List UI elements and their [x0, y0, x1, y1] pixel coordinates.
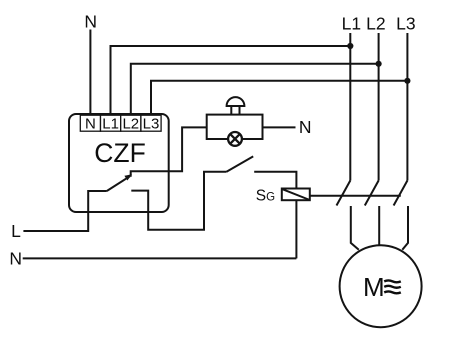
svg-text:N: N [84, 12, 97, 32]
svg-text:L2: L2 [122, 116, 139, 133]
svg-text:M: M [363, 272, 385, 302]
svg-text:N: N [9, 248, 22, 268]
svg-text:L3: L3 [396, 14, 415, 34]
svg-text:N: N [85, 116, 96, 133]
svg-text:L3: L3 [143, 116, 160, 133]
svg-text:L1: L1 [102, 116, 119, 133]
svg-text:CZF: CZF [94, 138, 146, 168]
svg-text:L1: L1 [342, 14, 361, 34]
svg-text:N: N [299, 117, 312, 137]
svg-text:L2: L2 [366, 14, 385, 34]
svg-text:L: L [11, 221, 21, 241]
